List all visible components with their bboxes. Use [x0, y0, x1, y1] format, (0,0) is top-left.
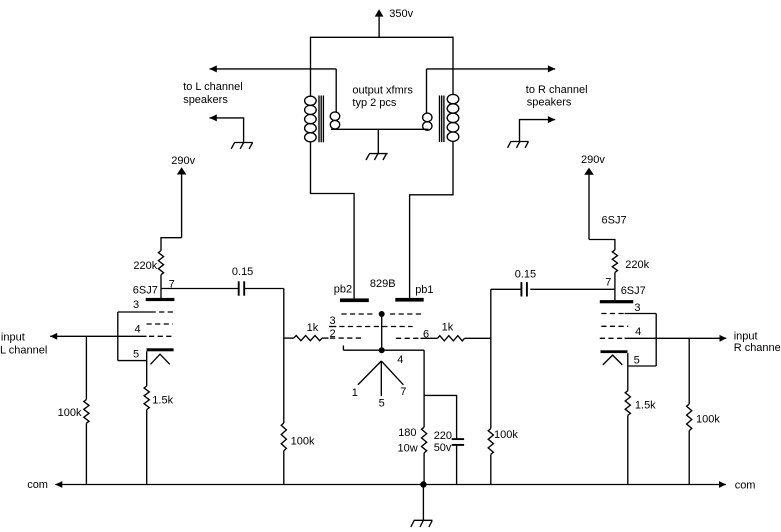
resistor R180 zigzag — [422, 427, 427, 453]
6SJ7 left grid row1 — [118, 311, 151, 313]
svg-text:180: 180 — [398, 427, 416, 439]
svg-text:3: 3 — [133, 299, 139, 311]
svg-text:0.15: 0.15 — [232, 266, 253, 278]
wire T2 primary top lead — [452, 37, 454, 95]
svg-text:to L channel: to L channel — [183, 81, 243, 93]
svg-text:5: 5 — [133, 349, 139, 361]
svg-text:L channel: L channel — [0, 345, 47, 357]
arrow to R channel speakers — [548, 65, 555, 72]
829B filament fan — [358, 361, 404, 396]
resistor R1k left zigzag — [294, 336, 322, 341]
arrow com right — [719, 481, 726, 488]
resistor 220k left zigzag — [158, 251, 163, 275]
829B plate bar pb1 — [395, 298, 423, 302]
6SJ7 right grid row2 dashes — [601, 325, 628, 327]
829B grid row1 dashes — [341, 313, 375, 315]
svg-text:com: com — [735, 479, 756, 491]
svg-text:290v: 290v — [171, 155, 195, 167]
transformer T2 secondary coil — [423, 113, 432, 130]
wire T1 primary bottom to pb2 — [311, 142, 355, 299]
svg-text:3: 3 — [634, 302, 640, 314]
transformer T2 core — [440, 96, 444, 143]
6SJ7 left grid row2 dashes — [147, 323, 174, 325]
wire T1 primary top lead — [310, 37, 312, 97]
svg-text:6SJ7: 6SJ7 — [621, 285, 646, 297]
6SJ7 right heater — [603, 355, 623, 365]
resistor 100k input right zigzag — [687, 404, 692, 431]
svg-text:pb1: pb1 — [415, 284, 433, 296]
svg-text:0.15: 0.15 — [515, 268, 536, 280]
arrow com left — [55, 481, 62, 488]
wire plate lead left 6SJ7 — [160, 275, 162, 299]
ground G1 center — [366, 154, 388, 160]
svg-text:350v: 350v — [389, 8, 413, 20]
resistor 220k right zigzag — [612, 250, 617, 272]
6SJ7 left plate bar — [146, 298, 175, 301]
svg-text:1.5k: 1.5k — [152, 394, 173, 406]
svg-text:6: 6 — [423, 329, 429, 341]
wire supply step left — [161, 238, 182, 251]
transformer T1 core — [319, 96, 323, 143]
wire L speaker return stub — [210, 118, 244, 143]
829B plate bar pb2 — [340, 298, 369, 302]
capacitor C1 0.15 left — [238, 281, 240, 295]
svg-text:speakers: speakers — [527, 96, 572, 108]
829B grid row3 dashes right — [396, 337, 419, 339]
resistor R1k left leads — [284, 337, 294, 339]
6SJ7 left heater — [151, 354, 170, 364]
arrow to L channel speakers — [210, 65, 217, 72]
wire com rail — [55, 484, 726, 486]
transformer T1 primary coil — [305, 96, 317, 142]
resistor 100k input left zigzag — [84, 400, 89, 424]
829B grid row2 dashes — [339, 326, 412, 328]
transformer T1 secondary coil — [330, 112, 339, 129]
wire T1 secondary top lead — [335, 69, 337, 112]
svg-text:to R channel: to R channel — [526, 84, 588, 96]
wire supply step right — [589, 240, 615, 251]
wire right speaker line — [427, 68, 556, 70]
svg-text:5: 5 — [634, 354, 640, 366]
resistor 100k input right leads — [688, 338, 690, 404]
wire center tap to ground — [377, 129, 379, 153]
arrow L speaker return — [210, 114, 217, 121]
resistor R180 180 10w leads — [423, 350, 425, 427]
290v supply arrow left — [177, 167, 187, 174]
svg-text:100k: 100k — [58, 407, 82, 419]
svg-text:220: 220 — [434, 430, 452, 442]
wire B+ top rail — [311, 36, 454, 38]
resistor 100k input left leads — [85, 336, 87, 399]
svg-text:1k: 1k — [442, 322, 454, 334]
svg-text:output xfmrs: output xfmrs — [352, 84, 413, 96]
wire plate to coupling cap left — [161, 288, 238, 290]
resistor R1k right leads — [421, 337, 438, 339]
arrow input right — [720, 335, 727, 342]
arrow R speaker return — [548, 116, 555, 123]
svg-text:6SJ7: 6SJ7 — [602, 215, 627, 227]
svg-text:100k: 100k — [291, 436, 315, 448]
transformer T2 primary coil — [447, 94, 459, 141]
pin divider line — [329, 326, 336, 328]
svg-text:100k: 100k — [696, 414, 720, 426]
wire plate to coupling cap right — [530, 288, 615, 290]
svg-text:4: 4 — [135, 323, 141, 335]
wire T2 primary bottom to pb1 — [410, 141, 453, 298]
wire grid link vertical — [381, 314, 383, 350]
svg-text:5: 5 — [379, 397, 385, 409]
wire left speaker line — [210, 68, 337, 70]
svg-text:input: input — [734, 331, 758, 343]
arrow input left — [50, 333, 57, 340]
svg-text:10w: 10w — [398, 443, 418, 455]
capacitor C2 0.15 right — [520, 282, 522, 296]
290v supply arrow right — [584, 168, 594, 175]
829B beam plate pin4 bracket — [343, 346, 424, 351]
wire coupling node vertical left — [283, 289, 285, 424]
ground G2 left speaker — [231, 143, 253, 149]
svg-text:1.5k: 1.5k — [635, 400, 656, 412]
wire R speaker return stub — [520, 120, 556, 142]
svg-text:input: input — [1, 331, 25, 343]
6SJ7 left cathode bar — [147, 348, 174, 351]
wire plate lead right 6SJ7 — [614, 272, 616, 300]
wire cap to grid node right — [491, 288, 521, 290]
svg-text:7: 7 — [605, 277, 611, 289]
svg-text:R channel: R channel — [734, 342, 781, 354]
resistor 1.5k right zigzag — [625, 391, 630, 416]
svg-text:7: 7 — [400, 386, 406, 398]
wire input line right — [600, 337, 625, 339]
resistor 1.5k left leads — [146, 351, 148, 386]
6SJ7 right plate bar — [600, 300, 634, 303]
resistor 1.5k left zigzag — [144, 386, 149, 410]
svg-text:1: 1 — [352, 387, 358, 399]
resistor 100k grid leak right zigzag — [488, 429, 493, 455]
6SJ7 left grid bracket — [118, 312, 147, 361]
wire T2 secondary top lead — [426, 69, 428, 113]
capacitor C3 220uF 50v — [452, 438, 464, 440]
svg-text:typ 2 pcs: typ 2 pcs — [352, 97, 397, 109]
6SJ7 right grid row1 — [601, 313, 624, 315]
wire secondary bottom link — [331, 128, 429, 130]
resistor 1.5k right leads — [627, 353, 629, 391]
ground G3 right speaker — [508, 142, 529, 148]
wire cap to grid node — [245, 288, 284, 290]
829B grid row3 dashes left — [330, 337, 362, 339]
svg-text:100k: 100k — [494, 429, 518, 441]
svg-text:829B: 829B — [370, 278, 396, 290]
wire input line left — [50, 335, 146, 337]
wire coupling node vertical right — [490, 289, 492, 428]
svg-text:4: 4 — [397, 354, 403, 366]
svg-text:1k: 1k — [307, 322, 319, 334]
junction dot bottom — [379, 347, 385, 353]
resistor 100k grid leak left zigzag — [281, 423, 286, 451]
svg-text:3: 3 — [330, 315, 336, 327]
resistor R1k right zigzag — [438, 336, 465, 341]
svg-text:4: 4 — [635, 326, 641, 338]
svg-text:220k: 220k — [133, 260, 157, 272]
svg-text:pb2: pb2 — [334, 283, 352, 295]
svg-text:6SJ7: 6SJ7 — [133, 285, 158, 297]
6SJ7 right grid bracket — [628, 314, 657, 367]
junction dot com — [420, 481, 426, 487]
svg-text:com: com — [27, 479, 48, 491]
svg-text:50v: 50v — [434, 442, 452, 454]
6SJ7 right cathode bar — [601, 350, 628, 353]
svg-text:speakers: speakers — [183, 94, 228, 106]
svg-text:290v: 290v — [581, 154, 605, 166]
wire com to ground — [422, 485, 424, 521]
350v supply arrow — [375, 9, 384, 16]
wire cathode bypass branch — [424, 395, 457, 439]
svg-text:220k: 220k — [625, 259, 649, 271]
junction dot top — [379, 311, 385, 317]
ground G4 bottom — [411, 520, 433, 527]
